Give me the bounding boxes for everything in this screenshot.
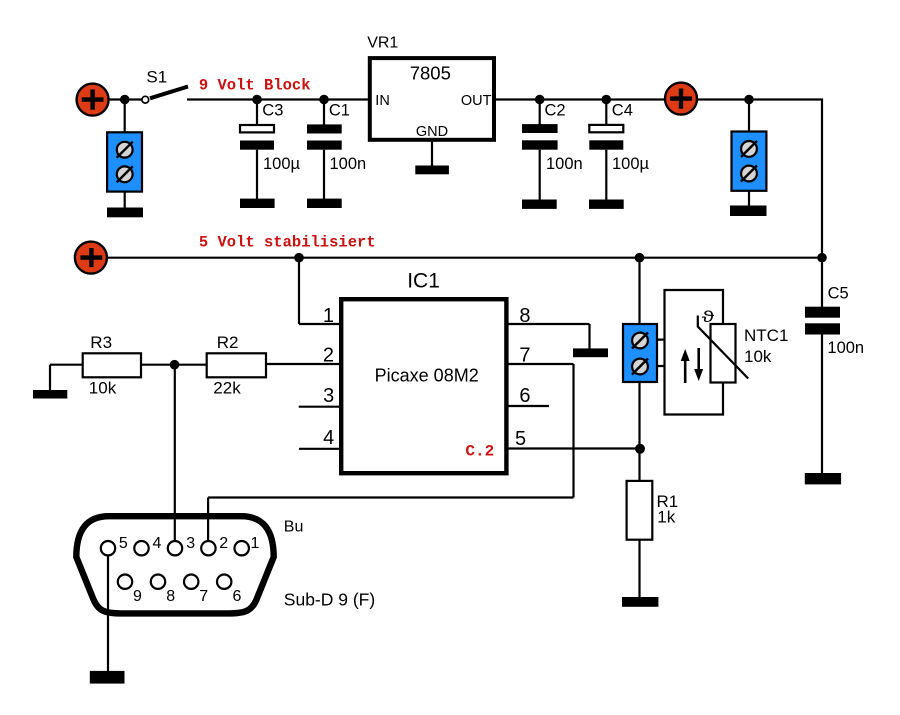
svg-text:100n: 100n — [827, 339, 864, 357]
label 9 Volt Block — [199, 76, 311, 94]
SubD pin 4 — [134, 535, 161, 555]
resistor R1 — [627, 481, 679, 598]
ground C1 — [307, 199, 342, 208]
svg-text:R2: R2 — [217, 333, 239, 352]
terminal block X1 (left) — [107, 132, 142, 191]
svg-text:3: 3 — [323, 385, 334, 407]
wire to right terminal block — [748, 100, 750, 134]
thermistor NTC1 — [698, 309, 748, 383]
SubD pin 1 — [235, 535, 260, 555]
wire R3 left to ground — [50, 365, 83, 391]
terminal block X3 (NTC) — [623, 324, 657, 382]
svg-text:1k: 1k — [657, 507, 675, 526]
capacitor C1 — [307, 100, 366, 200]
ground right terminal — [730, 206, 767, 217]
pin 6 label — [519, 385, 530, 407]
ground R3 — [33, 390, 67, 399]
terminal + 5V out top — [665, 83, 697, 115]
svg-text:6: 6 — [519, 385, 530, 407]
pin 7 label — [519, 345, 530, 367]
svg-text:OUT: OUT — [461, 93, 492, 109]
terminal block X2 (right) — [732, 132, 767, 191]
node junction pin1 branch — [294, 253, 304, 263]
wire pin 4 stub — [299, 448, 340, 450]
switch S1 — [142, 67, 188, 103]
ground VR1 — [415, 166, 449, 175]
svg-text:9 Volt Block: 9 Volt Block — [199, 76, 311, 94]
node junction divider — [170, 360, 180, 370]
wire 5V to IC pin1 — [299, 258, 340, 324]
SubD pin 7 — [184, 575, 208, 606]
wire to left terminal block — [124, 100, 126, 134]
svg-text:C2: C2 — [545, 102, 566, 120]
pin 5 label — [515, 428, 526, 450]
svg-text:2: 2 — [219, 535, 228, 552]
SubD pin 9 — [118, 575, 142, 606]
svg-text:IN: IN — [375, 93, 390, 109]
wire pin 8 to ground — [507, 324, 590, 349]
label SubD type — [284, 590, 375, 610]
svg-text:Picaxe 08M2: Picaxe 08M2 — [375, 365, 479, 385]
svg-text:ϑ: ϑ — [702, 309, 715, 326]
node junction C4 — [602, 95, 612, 105]
wire block to ground — [124, 192, 126, 208]
svg-text:5: 5 — [515, 428, 526, 450]
svg-text:22k: 22k — [213, 379, 241, 398]
wire top rail 9V — [108, 98, 823, 100]
svg-text:C5: C5 — [828, 284, 849, 302]
ground C3 — [240, 199, 275, 208]
ground SubD pin5 — [90, 671, 125, 684]
svg-text:5 Volt stabilisiert: 5 Volt stabilisiert — [199, 234, 376, 252]
ground C2 — [522, 200, 557, 209]
node junction C1 — [319, 95, 329, 105]
ground R1 — [622, 597, 658, 607]
svg-text:100n: 100n — [546, 155, 583, 173]
svg-text:GND: GND — [416, 124, 448, 140]
node junction right rail 5V — [817, 253, 827, 263]
wire SubD pin5 to ground — [107, 555, 109, 672]
svg-text:4: 4 — [323, 427, 334, 449]
regulator VR1 — [367, 35, 494, 141]
svg-text:Bu: Bu — [284, 519, 304, 536]
arrows temperature — [681, 348, 704, 383]
ground C5 — [805, 473, 841, 484]
svg-text:3: 3 — [186, 535, 195, 552]
svg-text:Sub-D 9 (F): Sub-D 9 (F) — [284, 590, 375, 610]
wire right vertical rail — [821, 99, 823, 308]
ground left terminal — [107, 208, 143, 218]
node junction pin5/R1 — [635, 444, 645, 454]
node junction NTC top — [635, 253, 645, 263]
capacitor C2 — [522, 100, 583, 201]
svg-text:10k: 10k — [89, 379, 117, 398]
pin 3 label — [323, 385, 334, 407]
svg-text:6: 6 — [233, 588, 242, 605]
pin 2 label — [323, 345, 334, 367]
SubD pin 3 — [168, 535, 195, 555]
IC U1 Picaxe — [341, 270, 506, 474]
pin 4 label — [323, 427, 334, 449]
svg-text:1: 1 — [323, 305, 334, 327]
svg-text:10k: 10k — [744, 347, 772, 366]
node junction right terminal — [744, 95, 754, 105]
node junction 9V-left — [120, 95, 130, 105]
svg-text:NTC1: NTC1 — [744, 326, 788, 345]
svg-text:C1: C1 — [329, 102, 350, 120]
wire 5V rail — [107, 257, 822, 259]
svg-text:7805: 7805 — [410, 62, 451, 83]
svg-text:100n: 100n — [330, 155, 367, 173]
SubD pin 8 — [151, 575, 175, 606]
terminal + 5V rail — [75, 242, 107, 274]
svg-text:4: 4 — [153, 535, 162, 552]
resistor R3 — [83, 333, 141, 398]
pin 8 label — [519, 305, 530, 327]
label C.2 — [465, 442, 494, 460]
capacitor C3 — [240, 100, 301, 200]
node junction C3 — [252, 95, 262, 105]
node junction C2 — [535, 95, 545, 105]
wire VR1 gnd pin — [431, 142, 433, 166]
svg-text:C3: C3 — [262, 102, 283, 120]
svg-text:100µ: 100µ — [263, 155, 301, 173]
svg-text:1: 1 — [251, 535, 260, 552]
wire pin 6 stub — [507, 405, 549, 407]
wire divider to SubD pin3 — [174, 365, 176, 542]
wire R3 to R2 — [141, 364, 207, 366]
resistor R2 — [207, 333, 266, 398]
wire right block to ground — [748, 191, 750, 206]
wire 5V down through NTC block — [638, 258, 640, 481]
wire NTC bracket — [657, 290, 723, 415]
SubD pin 2 — [201, 535, 228, 555]
svg-text:C.2: C.2 — [465, 442, 494, 460]
svg-text:IC1: IC1 — [407, 270, 440, 293]
wire pin 5 to junction — [507, 447, 640, 449]
svg-text:9: 9 — [133, 588, 142, 605]
capacitor C4 — [589, 100, 649, 201]
svg-text:8: 8 — [166, 588, 175, 605]
svg-text:R3: R3 — [90, 333, 112, 352]
capacitor C5 — [805, 284, 864, 474]
svg-text:C4: C4 — [612, 102, 633, 120]
ground pin 8 — [573, 348, 608, 357]
label NTC1 value — [744, 326, 788, 366]
wire pin 7 to SubD pin2 — [208, 364, 573, 541]
pin 1 label — [323, 305, 334, 327]
svg-text:S1: S1 — [146, 67, 167, 86]
wire pin 3 stub — [299, 406, 340, 408]
label Bu — [284, 519, 304, 536]
SubD pin 6 — [217, 575, 242, 606]
svg-text:VR1: VR1 — [367, 35, 398, 52]
svg-text:7: 7 — [199, 588, 208, 605]
connector SubD shell — [76, 516, 273, 613]
ground C4 — [589, 200, 624, 209]
svg-text:5: 5 — [119, 535, 128, 552]
wire R2 to pin 2 — [266, 363, 340, 365]
SubD pin 5 — [101, 535, 128, 555]
terminal + 9V — [77, 84, 109, 116]
svg-text:100µ: 100µ — [612, 155, 650, 173]
label 5 Volt stabilisiert — [199, 234, 376, 252]
